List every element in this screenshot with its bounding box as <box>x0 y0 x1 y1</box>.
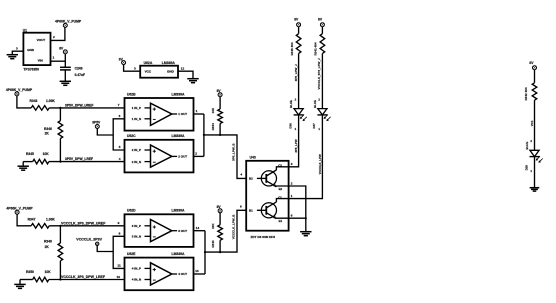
transistor Q2 (bottom, B1/C1/E1) <box>261 203 276 218</box>
svg-text:6: 6 <box>240 205 242 209</box>
capacitor C248 0.47uF <box>60 66 71 68</box>
svg-text:D37: D37 <box>312 123 316 129</box>
svg-text:LM339A: LM339A <box>172 134 186 138</box>
output bus group 1 <box>203 114 205 156</box>
svg-text:4 IN_N: 4 IN_N <box>132 278 141 282</box>
svg-text:3 IN_P: 3 IN_P <box>132 224 141 228</box>
op-amp triangle U62D <box>151 220 172 242</box>
ground at R350 <box>14 283 25 285</box>
svg-text:2: 2 <box>195 151 197 155</box>
svg-text:VCCCLK_3P3_LPW_J: VCCCLK_3P3_LPW_J <box>317 58 321 90</box>
svg-text:LM339A: LM339A <box>172 252 186 256</box>
ground below C248 <box>60 80 71 82</box>
svg-text:U62A: U62A <box>144 61 153 65</box>
svg-text:0.47uF: 0.47uF <box>75 73 85 77</box>
svg-text:D36: D36 <box>288 123 292 129</box>
svg-text:1: 1 <box>196 109 198 113</box>
wire C1 to LED chain 2 <box>289 115 323 198</box>
wire 3P5V to input bracket <box>97 129 113 136</box>
svg-text:4 IN_P: 4 IN_P <box>132 267 141 271</box>
svg-text:R343: R343 <box>30 99 38 103</box>
svg-text:3P5_LPW_B: 3P5_LPW_B <box>232 143 236 161</box>
wire LED to ground far right <box>534 157 536 188</box>
wire VCCCLK_3P3V to input bracket <box>97 246 113 252</box>
svg-text:R346: R346 <box>44 127 52 131</box>
svg-text:1.00K: 1.00K <box>46 99 55 103</box>
svg-text:1 OUT: 1 OUT <box>178 112 187 116</box>
svg-text:VIN: VIN <box>38 59 44 63</box>
op-amp triangle U62E <box>151 263 172 285</box>
wire bus junction to U43 B1 <box>205 210 246 252</box>
ground far right chain <box>530 187 540 189</box>
svg-text:4 OUT: 4 OUT <box>178 272 187 276</box>
svg-text:ZDT D6 648I DF8: ZDT D6 648I DF8 <box>251 235 276 239</box>
svg-text:10: 10 <box>117 275 121 279</box>
wire bracket to U62D pin 8 and U62E pin 11 <box>113 236 124 268</box>
svg-text:3: 3 <box>291 162 293 166</box>
svg-text:VCCCLK_LPW: VCCCLK_LPW <box>318 154 322 174</box>
svg-text:B2: B2 <box>249 177 253 181</box>
wire flag down to R347 <box>17 214 31 226</box>
svg-text:B1: B1 <box>249 209 253 213</box>
svg-text:R347: R347 <box>28 218 36 222</box>
svg-text:E1: E1 <box>279 219 283 223</box>
ground at R345 <box>18 165 29 167</box>
svg-text:6: 6 <box>291 214 293 218</box>
svg-text:GND: GND <box>27 48 35 52</box>
svg-text:4P66K_V_PUMP: 4P66K_V_PUMP <box>6 206 33 210</box>
svg-text:TPS76350: TPS76350 <box>23 68 39 72</box>
svg-text:4: 4 <box>119 157 121 161</box>
svg-text:11: 11 <box>117 264 121 268</box>
svg-text:12: 12 <box>181 67 185 71</box>
svg-text:BLUE: BLUE <box>525 142 529 150</box>
wire C2 to LED chain 1 <box>289 115 299 167</box>
svg-text:R349: R349 <box>44 240 52 244</box>
input stubs U62B <box>145 107 151 109</box>
svg-text:10K: 10K <box>43 152 50 156</box>
svg-text:VC1: VC1 <box>530 120 534 126</box>
ground at U62A <box>187 78 198 80</box>
svg-text:D28: D28 <box>524 165 528 171</box>
svg-text:LM339A: LM339A <box>172 209 186 213</box>
svg-text:R350: R350 <box>26 270 34 274</box>
svg-text:10K: 10K <box>211 107 215 113</box>
svg-text:3 OUT: 3 OUT <box>178 229 187 233</box>
svg-text:VCCCLK_3P3_DPW_UREF: VCCCLK_3P3_DPW_UREF <box>61 221 106 225</box>
svg-text:1 IN_P: 1 IN_P <box>132 106 141 110</box>
svg-text:R340: R340 <box>211 240 215 248</box>
input stubs U62E <box>145 267 151 269</box>
svg-text:VCC: VCC <box>145 69 152 73</box>
input stubs U62C <box>145 149 151 151</box>
svg-text:R348 464: R348 464 <box>290 42 294 55</box>
svg-text:2 OUT: 2 OUT <box>178 155 187 159</box>
svg-text:3P5V_DPW_LREF: 3P5V_DPW_LREF <box>65 157 93 161</box>
svg-text:VCCCLK_3P3_DPW_LREF: VCCCLK_3P3_DPW_LREF <box>61 275 106 279</box>
svg-text:13: 13 <box>195 269 199 273</box>
svg-text:2K: 2K <box>45 245 50 249</box>
svg-text:U62E: U62E <box>127 252 136 256</box>
ground at U1 GND <box>7 54 18 56</box>
svg-text:14: 14 <box>196 226 200 230</box>
svg-text:VCCCLK_3P3V: VCCCLK_3P3V <box>76 238 102 242</box>
svg-text:1: 1 <box>291 194 293 198</box>
svg-text:1: 1 <box>53 55 55 59</box>
wire E2/E1 to ground <box>289 186 306 232</box>
svg-text:LM339A: LM339A <box>162 61 176 65</box>
wire bracket to U62B pin 6 and U62C pin 5 <box>113 119 124 150</box>
wire flag down to R343 <box>17 96 31 108</box>
svg-text:3P5V: 3P5V <box>92 121 101 125</box>
wire bus junction to U43 B2 <box>204 135 246 179</box>
svg-text:3: 3 <box>134 67 136 71</box>
op-amp triangle U62C <box>151 145 172 167</box>
svg-text:U62B: U62B <box>127 92 136 96</box>
svg-text:U62C: U62C <box>127 134 136 138</box>
svg-text:8: 8 <box>119 232 121 236</box>
svg-text:2: 2 <box>53 35 55 39</box>
svg-text:C248: C248 <box>75 66 83 70</box>
svg-text:2 IN_P: 2 IN_P <box>132 148 141 152</box>
svg-text:4: 4 <box>240 173 242 177</box>
svg-text:U43: U43 <box>250 156 256 160</box>
svg-text:3 IN_N: 3 IN_N <box>132 235 141 239</box>
svg-text:2 IN_N: 2 IN_N <box>132 160 141 164</box>
svg-text:3P5V_DPW_UREF: 3P5V_DPW_UREF <box>65 103 93 107</box>
output bus group 2 <box>204 231 206 274</box>
svg-text:10K: 10K <box>45 270 52 274</box>
svg-text:4P66K_V_PUMP: 4P66K_V_PUMP <box>55 20 82 24</box>
svg-text:6: 6 <box>119 114 121 118</box>
op-amp triangle U62B <box>151 103 172 125</box>
svg-text:1 IN_N: 1 IN_N <box>132 117 141 121</box>
ground at U43 emitters <box>300 231 311 233</box>
svg-text:VCCCLK_LPW_B: VCCCLK_LPW_B <box>232 214 236 240</box>
svg-text:9: 9 <box>118 221 120 225</box>
svg-text:LM339A: LM339A <box>172 92 186 96</box>
svg-text:5: 5 <box>119 145 121 149</box>
svg-text:1.00K: 1.00K <box>46 218 55 222</box>
svg-text:GND: GND <box>167 69 175 73</box>
svg-text:R345: R345 <box>26 152 34 156</box>
svg-text:BLUE: BLUE <box>289 100 293 108</box>
svg-text:R341 464: R341 464 <box>314 42 318 55</box>
svg-text:BLUE: BLUE <box>313 100 317 108</box>
svg-text:R342 464: R342 464 <box>524 87 528 100</box>
svg-text:2K: 2K <box>45 132 50 136</box>
svg-text:3P5_LPW: 3P5_LPW <box>294 139 298 152</box>
svg-text:3P5_LPW_J: 3P5_LPW_J <box>294 64 298 81</box>
transistor Q1 (top, B2/C2/E2) <box>261 171 276 186</box>
svg-text:3: 3 <box>16 47 18 51</box>
svg-text:E2: E2 <box>279 187 283 191</box>
svg-text:VOUT: VOUT <box>37 38 46 42</box>
svg-text:7: 7 <box>118 103 120 107</box>
svg-text:2: 2 <box>291 181 293 185</box>
svg-text:10K: 10K <box>211 223 215 229</box>
svg-text:4P66K_V_PUMP: 4P66K_V_PUMP <box>6 88 33 92</box>
input stubs U62D <box>145 225 151 227</box>
svg-text:U62D: U62D <box>127 209 136 213</box>
svg-text:R344: R344 <box>211 123 215 131</box>
